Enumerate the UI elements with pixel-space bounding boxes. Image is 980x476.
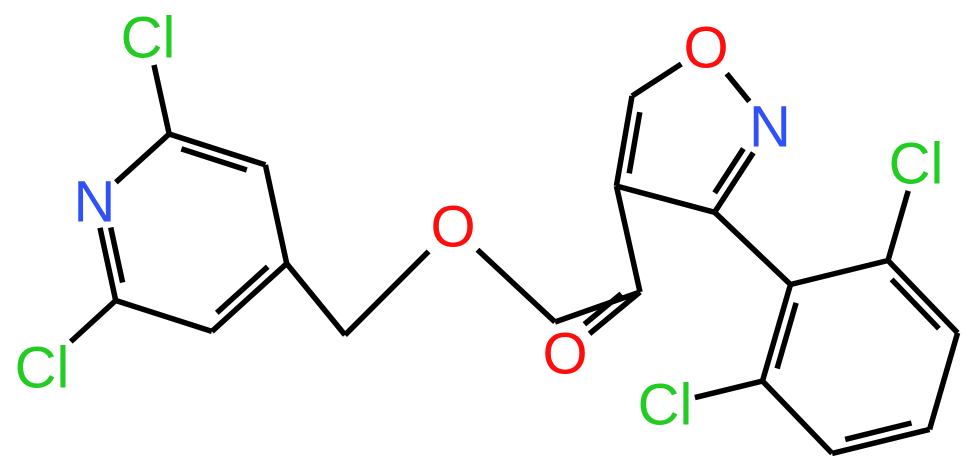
svg-text:Cl: Cl [638,373,693,438]
bond C5-C6 [116,301,212,332]
bond CH2b-Cc [555,292,640,322]
svg-text:Cl: Cl [889,132,944,197]
svg-text:O: O [683,16,728,81]
bond C4-CH2a [287,264,345,335]
bond C3-C4 [265,165,286,264]
svg-text:Cl: Cl [121,6,176,71]
bond N2-C3i (double) [715,153,754,213]
bond C3p-C4p [930,333,958,430]
bond C4p-C5p (double) [832,429,930,453]
bond C2-C3 (double) [169,134,265,165]
bond C6-Cl3 [71,301,116,342]
svg-text:N: N [749,95,791,160]
bond C3i-C1p [715,212,791,284]
bond Oe-CH2b [478,250,556,322]
bond CH2a-Oe [345,251,429,335]
bond C4i-C5i (double) [616,96,632,186]
svg-text:O: O [542,322,587,387]
bond C5i-O1 [632,64,681,96]
bond C6p-C1p (double) [763,285,791,382]
bond C6-N1 (double) [100,228,116,301]
bond C2p-C3p (double) [888,261,958,333]
bond C6p-Cl9 [695,381,763,398]
bond C2-Cl1 [154,65,169,134]
svg-text:Cl: Cl [15,336,70,401]
bond C5p-C6p [763,381,833,453]
bond Cc-C4i [616,186,640,292]
bond N1-C2 [116,134,169,182]
bond C2p-Cl7 [888,191,908,261]
svg-text:O: O [430,195,475,260]
bond O1-N2 [727,74,750,102]
svg-text:N: N [73,169,115,234]
bond C1p-C2p [791,261,889,285]
bond Cc-O8 (double) [590,292,641,334]
bond C3i-C4i [616,186,714,212]
bond C4-C5 (double) [212,264,287,332]
